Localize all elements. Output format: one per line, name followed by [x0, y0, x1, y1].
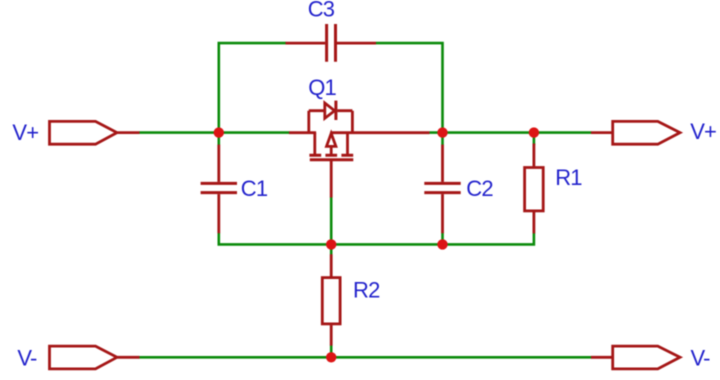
- junction mid-C2: [437, 239, 447, 249]
- port V- right: [591, 346, 680, 369]
- svg-text:V+: V+: [690, 119, 716, 144]
- svg-text:R2: R2: [353, 277, 380, 302]
- junction bottom-R2: [326, 352, 336, 362]
- capacitor C3: [286, 24, 377, 62]
- resistor R2: [322, 254, 340, 345]
- wire top-right segment: [376, 43, 443, 133]
- capacitor C1: [201, 145, 237, 234]
- port V- left: [50, 346, 140, 369]
- wire R1 upper stub: [533, 133, 536, 145]
- transistor Q1: [289, 101, 430, 198]
- port V+ right: [591, 121, 680, 144]
- svg-text:C2: C2: [466, 176, 493, 201]
- port V+ left: [50, 121, 140, 144]
- svg-text:C1: C1: [241, 176, 268, 201]
- wire main row left: [139, 131, 290, 134]
- junction main-R1: [529, 127, 539, 137]
- junction main-C2: [437, 127, 447, 137]
- wire C2 lower stub: [441, 233, 444, 245]
- wire bottom-middle row: [219, 233, 534, 245]
- wire C1 upper stub: [218, 133, 221, 145]
- wire main row right: [430, 131, 592, 134]
- svg-text:R1: R1: [555, 165, 582, 190]
- resistor R1: [525, 144, 544, 234]
- junction mid-gate: [326, 239, 336, 249]
- junction main-left: [214, 127, 224, 137]
- wire top-left segment: [219, 43, 286, 133]
- svg-text:V+: V+: [12, 120, 38, 145]
- wire gate to node: [330, 197, 333, 255]
- wire bottom row: [139, 356, 592, 359]
- svg-text:Q1: Q1: [308, 75, 336, 100]
- svg-text:C3: C3: [308, 0, 335, 21]
- svg-text:V-: V-: [17, 346, 37, 371]
- svg-text:V-: V-: [691, 345, 711, 370]
- wire C2 upper stub: [441, 133, 444, 145]
- wire R2 lower stub: [330, 345, 333, 357]
- capacitor C2: [424, 145, 460, 234]
